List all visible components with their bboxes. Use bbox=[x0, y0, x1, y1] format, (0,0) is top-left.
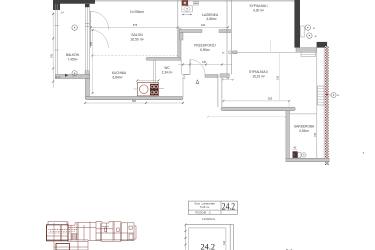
svg-text:16,50 m²: 16,50 m² bbox=[130, 37, 144, 41]
svg-text:745: 745 bbox=[50, 53, 53, 58]
svg-text:WC: WC bbox=[164, 66, 170, 70]
svg-text:5,24 m²: 5,24 m² bbox=[200, 205, 209, 209]
svg-text:PRZEDPOKÓJ: PRZEDPOKÓJ bbox=[194, 43, 216, 48]
svg-text:195: 195 bbox=[202, 61, 207, 64]
svg-text:POZIOM -2: POZIOM -2 bbox=[195, 210, 211, 214]
svg-text:16,19 m²: 16,19 m² bbox=[252, 75, 265, 79]
svg-text:178: 178 bbox=[314, 132, 317, 137]
svg-text:2,34 m²: 2,34 m² bbox=[162, 70, 173, 74]
svg-text:575: 575 bbox=[133, 23, 138, 27]
svg-text:6,84m²: 6,84m² bbox=[113, 75, 123, 79]
svg-text:318: 318 bbox=[223, 240, 226, 245]
svg-text:4,66m²: 4,66m² bbox=[206, 17, 217, 21]
svg-text:355: 355 bbox=[268, 97, 273, 101]
svg-text:Kom. Lokatorska: Kom. Lokatorska bbox=[195, 202, 216, 206]
svg-text:7,45m²: 7,45m² bbox=[68, 57, 78, 61]
svg-text:6,90m²: 6,90m² bbox=[200, 48, 210, 52]
svg-text:H=327cm: H=327cm bbox=[202, 217, 215, 221]
svg-text:9,30 m²: 9,30 m² bbox=[253, 9, 264, 13]
svg-text:BALKON: BALKON bbox=[66, 53, 80, 57]
svg-text:SALON: SALON bbox=[131, 33, 143, 37]
svg-text:24.2: 24.2 bbox=[222, 202, 235, 212]
svg-text:256: 256 bbox=[90, 41, 93, 46]
svg-text:318: 318 bbox=[277, 75, 280, 80]
svg-text:240: 240 bbox=[201, 23, 206, 27]
svg-text:A 1.1: A 1.1 bbox=[56, 76, 62, 79]
svg-text:4,53m²: 4,53m² bbox=[299, 129, 309, 133]
svg-text:H=256cm: H=256cm bbox=[130, 10, 144, 14]
svg-text:583: 583 bbox=[132, 100, 137, 103]
svg-text:GARDEROBA: GARDEROBA bbox=[294, 125, 315, 129]
svg-text:SYPIALNIA II: SYPIALNIA II bbox=[249, 70, 268, 74]
svg-text:24.2: 24.2 bbox=[201, 242, 216, 250]
svg-text:KUCHNIA: KUCHNIA bbox=[112, 71, 127, 75]
svg-text:SYPIALNIA I: SYPIALNIA I bbox=[249, 4, 267, 8]
